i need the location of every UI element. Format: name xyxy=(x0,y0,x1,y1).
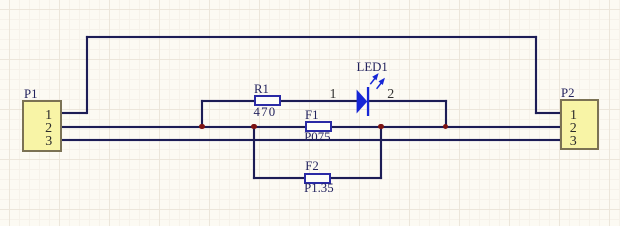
label LED1 xyxy=(357,61,388,74)
wire F2 row left segment xyxy=(253,177,306,179)
pin 1 of P1 xyxy=(45,109,53,123)
LED LED1 symbol with emission arrows xyxy=(340,60,400,120)
label F1 xyxy=(305,109,319,122)
junction dot at F2 right drop xyxy=(378,124,384,130)
wire R1 riser xyxy=(201,100,203,128)
resistor R1 body xyxy=(254,95,281,106)
pin 2 of P1 xyxy=(45,122,53,136)
LED pin number 1 xyxy=(329,88,337,102)
LED cathode bar xyxy=(367,87,369,116)
wire R1 to LED segment xyxy=(279,100,357,102)
junction dot at R1 riser xyxy=(199,124,205,130)
wire F2 right drop xyxy=(380,126,382,179)
wire P1 pin1 stub xyxy=(60,112,87,114)
wire pin2 bus (net through F1) xyxy=(60,126,561,128)
LED pin number 2 xyxy=(387,88,395,102)
LED triangle anode xyxy=(357,90,368,114)
pin 2 of P2 xyxy=(569,122,577,136)
LED arrow 2 xyxy=(377,79,384,89)
wire LED cathode to right drop xyxy=(368,100,447,102)
value 470 xyxy=(254,106,277,119)
wire LED row drop xyxy=(445,100,447,128)
junction dot at F2 left drop xyxy=(251,124,257,130)
label F2 xyxy=(305,160,319,173)
wire pin3 bus xyxy=(60,139,561,141)
wire F2 row right segment xyxy=(330,177,383,179)
pin 3 of P1 xyxy=(45,135,53,149)
connector P2 body xyxy=(560,99,599,151)
wire right drop from top bus to P2 pin1 xyxy=(535,36,537,115)
wire R1 row left segment xyxy=(201,100,255,102)
wire left riser from P1 pin1 to top bus xyxy=(86,36,88,114)
LED arrow 1 xyxy=(370,75,377,85)
wire top bus xyxy=(86,36,537,38)
fuse F1 body xyxy=(305,121,332,132)
pin 1 of P2 xyxy=(570,109,578,123)
pin 3 of P2 xyxy=(569,135,577,149)
connector P1 body xyxy=(22,100,62,153)
wire P2 pin1 stub xyxy=(535,112,562,114)
wire F2 left drop xyxy=(253,126,255,179)
value P075 xyxy=(304,131,330,144)
label R1 xyxy=(254,83,269,96)
value P1.35 xyxy=(304,182,334,195)
junction dot at LED row drop xyxy=(443,124,449,130)
label P1 xyxy=(24,88,38,101)
label P2 xyxy=(561,87,575,100)
fuse F2 body xyxy=(304,173,331,184)
